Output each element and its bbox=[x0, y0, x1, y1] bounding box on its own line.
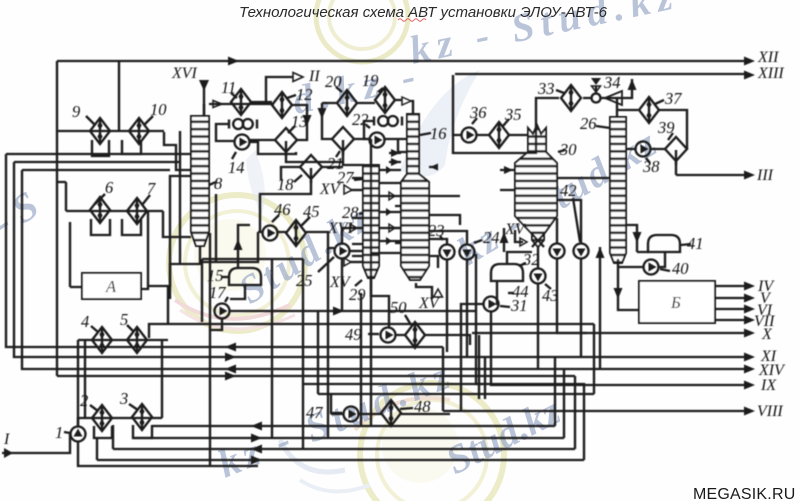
wire left loop 9 to 6 bbox=[57, 182, 66, 211]
wire col26 bottom bbox=[618, 259, 639, 310]
node XI arrow bbox=[744, 353, 755, 362]
wire ac14 to pump14 bbox=[216, 124, 234, 141]
svg-text:27: 27 bbox=[337, 168, 354, 187]
wire pump49 row bbox=[396, 335, 470, 345]
wire pump43 drop bbox=[538, 247, 600, 369]
column 27 28 stripper bbox=[363, 165, 379, 278]
label 29 bbox=[349, 280, 366, 304]
heat exchanger 10 bbox=[129, 100, 167, 144]
label column 28 bbox=[342, 203, 363, 222]
wire maze v443 viii riser bbox=[442, 347, 444, 411]
svg-text:20: 20 bbox=[325, 72, 342, 91]
wire xiii left riser bbox=[453, 75, 461, 135]
svg-text:VIII: VIII bbox=[757, 403, 783, 420]
heat exchanger 7 bbox=[127, 179, 156, 224]
wire d13 bottom out bbox=[286, 151, 364, 165]
svg-text:39: 39 bbox=[657, 118, 675, 137]
heat exchanger 48 bbox=[381, 397, 431, 426]
wire mid verticals bbox=[303, 139, 594, 449]
svg-text:42: 42 bbox=[560, 181, 577, 200]
heat exchanger 45 bbox=[286, 202, 320, 246]
heat exchanger 9 bbox=[72, 102, 110, 144]
label column 27 bbox=[337, 168, 363, 187]
column 16 bbox=[401, 114, 429, 280]
svg-text:50: 50 bbox=[390, 298, 407, 317]
svg-text:Б: Б bbox=[670, 293, 681, 312]
wire pump42a drop bbox=[557, 259, 587, 333]
svg-text:9: 9 bbox=[72, 102, 80, 121]
heat exchanger 5 bbox=[120, 310, 147, 353]
node I inlet bbox=[2, 434, 70, 453]
pump 1 bbox=[55, 423, 86, 442]
wire xv col27 lower inject bbox=[350, 261, 363, 263]
wire col8 top feed xvi bbox=[203, 104, 205, 116]
node VI arrow bbox=[715, 308, 744, 310]
diamond 21 bbox=[327, 127, 354, 173]
node XII line bbox=[57, 60, 744, 62]
pump 43 bbox=[531, 269, 559, 306]
pump 23 bbox=[428, 221, 455, 260]
svg-text:XII: XII bbox=[757, 49, 779, 66]
node VIII line bbox=[443, 410, 744, 412]
svg-text:5: 5 bbox=[120, 310, 128, 329]
wire hx5 right drop to hx2 row bbox=[161, 340, 163, 418]
label XV near 29 bbox=[329, 258, 352, 291]
svg-text:44: 44 bbox=[512, 282, 529, 301]
svg-text:37: 37 bbox=[664, 89, 682, 108]
wire col30 bottom to pump43 bbox=[537, 247, 539, 268]
wire pump14 left inlet bbox=[250, 142, 296, 154]
svg-text:13: 13 bbox=[291, 112, 308, 131]
pump 22 bbox=[352, 110, 385, 148]
pale blue bird swoosh bbox=[400, 70, 480, 176]
svg-text:11: 11 bbox=[221, 78, 236, 97]
wire stub u under hx7 bbox=[122, 219, 141, 235]
pump 36 bbox=[462, 103, 488, 143]
wire pump17 down out bbox=[210, 233, 222, 466]
pump 40 bbox=[644, 259, 690, 278]
wire col27 left stubs bbox=[352, 178, 363, 256]
node II outlet bbox=[266, 77, 293, 102]
svg-text:XV: XV bbox=[504, 221, 527, 238]
wire maze x row left bbox=[472, 332, 587, 334]
wire pump24 drop bbox=[466, 260, 468, 358]
svg-text:2: 2 bbox=[80, 391, 88, 410]
wire E row4 bbox=[57, 375, 575, 377]
electric desalter A bbox=[82, 273, 141, 299]
heat exchanger 20 bbox=[325, 72, 357, 116]
wire pump40 to dome41 bbox=[659, 252, 665, 267]
wire maze row388 bbox=[476, 254, 584, 460]
label column 30 bbox=[558, 140, 577, 159]
wire hx45 pump46 row bbox=[258, 232, 334, 248]
wire d13 to pump14 row bbox=[250, 139, 275, 141]
node X line bbox=[587, 332, 744, 334]
wire pump42b drop bbox=[580, 259, 582, 357]
wire d18 row bbox=[281, 167, 343, 180]
wire E arrows bbox=[225, 343, 236, 352]
node XIII line bbox=[455, 73, 744, 75]
svg-text:6: 6 bbox=[105, 178, 114, 197]
pump 46 bbox=[263, 200, 292, 241]
wire pump25 out bbox=[350, 250, 363, 252]
wire hx9 hx10 row bbox=[57, 130, 164, 132]
svg-text:26: 26 bbox=[580, 114, 597, 133]
svg-text:38: 38 bbox=[642, 157, 660, 176]
heat exchanger 37 bbox=[639, 89, 682, 123]
svg-text:48: 48 bbox=[414, 397, 431, 416]
wire xvi inject col27 bbox=[356, 227, 363, 229]
svg-text:XIII: XIII bbox=[757, 65, 784, 82]
wire pump24 feed bbox=[429, 231, 467, 245]
wire hx37 loop right bbox=[659, 110, 687, 149]
wire hx4 hx5 row bbox=[78, 339, 168, 341]
column 30 vacuum bbox=[515, 125, 557, 247]
wire E row2 bbox=[14, 162, 744, 357]
svg-text:19: 19 bbox=[362, 71, 379, 90]
wire ac22 to pump22 bbox=[364, 121, 374, 139]
wire right loop col8 row down bbox=[179, 131, 181, 264]
wire E row3 bbox=[22, 170, 744, 369]
diamond 18 bbox=[277, 155, 322, 194]
wire XII riser x119 bbox=[118, 61, 120, 131]
label column 8 bbox=[209, 174, 223, 193]
logo watermark center-left bbox=[169, 195, 305, 331]
label XV near 24 bbox=[504, 221, 527, 246]
wire pump31 drop bbox=[461, 304, 605, 411]
furnace 41 bbox=[648, 234, 704, 253]
wire pump47 row bbox=[331, 413, 450, 415]
wire b row4 bbox=[97, 459, 584, 461]
pump 47 bbox=[306, 403, 359, 422]
wire box A right to riser bbox=[141, 212, 148, 289]
heat exchanger 33 bbox=[537, 79, 581, 111]
heat exchanger 6 bbox=[90, 178, 114, 223]
wire maze row345 bbox=[554, 357, 556, 426]
pump 14 bbox=[228, 135, 250, 178]
wire maze row377 bbox=[574, 376, 576, 449]
wire d18 bottom drop bbox=[260, 180, 311, 233]
wire d21 to col16 bbox=[354, 138, 371, 140]
wire maze filler v485 bbox=[484, 356, 486, 399]
wire pump40 left bbox=[618, 266, 643, 268]
wire stub u under hx6 bbox=[91, 219, 110, 235]
svg-text:29: 29 bbox=[349, 285, 366, 304]
furnace 32 bbox=[491, 250, 540, 281]
svg-text:12: 12 bbox=[296, 85, 313, 104]
svg-text:35: 35 bbox=[504, 105, 522, 124]
svg-text:IX: IX bbox=[760, 377, 777, 394]
wire col16 bottom to pumps bbox=[416, 283, 432, 299]
wire maze filler v479 bbox=[478, 335, 480, 399]
wire pump23 drop bbox=[446, 260, 448, 352]
wire left frame vertical bbox=[56, 61, 58, 376]
wire furnace15 top arrow up bbox=[238, 225, 250, 268]
label XV near 18 bbox=[319, 181, 352, 198]
svg-text:23: 23 bbox=[428, 221, 445, 240]
svg-text:30: 30 bbox=[559, 140, 577, 159]
wire b arrows bbox=[251, 422, 262, 431]
wire rungs between col28 and col16 bbox=[371, 170, 401, 253]
wire dome41 to col26 bbox=[626, 225, 649, 252]
wire box around 36 bbox=[453, 129, 536, 153]
node IV arrow bbox=[715, 285, 744, 287]
heat exchanger 19 bbox=[362, 71, 395, 113]
label XV near 50 bbox=[418, 289, 443, 312]
wire xv inject col30 bbox=[515, 230, 523, 242]
wire riser 24 arrow bbox=[503, 228, 505, 252]
node XIV arrow bbox=[744, 365, 755, 374]
wire b row1 bbox=[152, 425, 555, 427]
pump 24 bbox=[460, 228, 500, 260]
svg-text:24: 24 bbox=[483, 228, 500, 247]
block B bbox=[639, 281, 715, 323]
svg-text:46: 46 bbox=[274, 200, 291, 219]
pump 49 bbox=[345, 325, 396, 344]
svg-text:X: X bbox=[761, 326, 773, 343]
node III line bbox=[676, 174, 744, 176]
svg-text:10: 10 bbox=[150, 100, 167, 119]
wire b row3 bbox=[113, 448, 575, 450]
pump 42a bbox=[550, 244, 565, 259]
wire xv inject 27 bbox=[350, 189, 363, 191]
svg-text:1: 1 bbox=[55, 423, 63, 442]
wire pump1 to hx2 row bbox=[78, 418, 258, 466]
heat exchanger 50 bbox=[390, 298, 425, 348]
svg-text:XVI: XVI bbox=[171, 65, 198, 82]
svg-text:25: 25 bbox=[296, 271, 313, 290]
wire box A left riser bbox=[70, 222, 82, 287]
diamond 39 bbox=[657, 118, 687, 165]
wire col30 left feeds bbox=[500, 170, 515, 190]
heat exchanger 2 bbox=[80, 391, 112, 431]
pump 38 bbox=[636, 142, 661, 177]
wire furnace32 to pump31 bbox=[497, 281, 499, 304]
column 8 bbox=[191, 116, 209, 246]
svg-text:16: 16 bbox=[430, 124, 447, 143]
svg-text:XV: XV bbox=[329, 274, 352, 291]
wire col26 top to hx37 bbox=[617, 98, 638, 117]
wire pump17 right line bbox=[230, 310, 476, 312]
node VII arrow bbox=[715, 319, 744, 321]
wire maze row366 bbox=[563, 369, 565, 438]
heat exchanger 11 bbox=[221, 78, 251, 115]
wire stub u between hx9 hx10 bbox=[122, 140, 141, 154]
wire box A right second bbox=[148, 176, 594, 338]
wire hx20 19 row bbox=[322, 100, 402, 103]
wire hx6 hx7 row bbox=[66, 211, 191, 237]
svg-text:18: 18 bbox=[277, 175, 294, 194]
wire col27 bottom drop bbox=[371, 278, 389, 327]
pump 42b bbox=[560, 181, 589, 259]
wire row y309 arrow bbox=[333, 307, 344, 316]
svg-text:36: 36 bbox=[469, 103, 487, 122]
heat exchanger 35 bbox=[489, 105, 522, 148]
svg-text:47: 47 bbox=[306, 403, 323, 422]
svg-text:14: 14 bbox=[228, 158, 245, 177]
wire pump25 top riser bbox=[342, 228, 356, 243]
node IX line bbox=[605, 384, 744, 386]
svg-text:22: 22 bbox=[352, 110, 369, 129]
air cooler of 22 bbox=[374, 116, 402, 126]
wire furnace15 to pump17 bbox=[230, 285, 245, 299]
svg-text:41: 41 bbox=[687, 234, 704, 253]
pump 17 bbox=[209, 283, 230, 319]
svg-text:XV: XV bbox=[319, 181, 342, 198]
svg-text:45: 45 bbox=[303, 202, 320, 221]
air cooler of 14 bbox=[229, 119, 257, 129]
svg-text:32: 32 bbox=[522, 250, 540, 269]
svg-text:17: 17 bbox=[209, 283, 226, 302]
svg-text:MEGASIK.RU: MEGASIK.RU bbox=[693, 486, 795, 501]
svg-text:43: 43 bbox=[542, 286, 559, 305]
label column 16 bbox=[420, 124, 447, 143]
wire maze row399 bbox=[593, 324, 595, 394]
wire col8 bottom drop bbox=[170, 246, 200, 299]
heat exchanger 4 bbox=[81, 312, 112, 353]
wire col16 right feeds bbox=[429, 167, 438, 268]
wire d39 bottom to III bbox=[675, 161, 677, 175]
wire furnace15 box bbox=[202, 259, 303, 438]
svg-text:4: 4 bbox=[81, 312, 89, 331]
svg-text:III: III bbox=[756, 167, 774, 184]
svg-text:I: I bbox=[3, 431, 10, 448]
svg-text:II: II bbox=[308, 68, 320, 85]
wire E left tails bbox=[6, 154, 191, 170]
wire furnace32 top bbox=[507, 252, 532, 264]
pump 25 bbox=[296, 244, 350, 291]
wire 46 left riser bbox=[202, 194, 258, 322]
svg-text:15: 15 bbox=[207, 266, 224, 285]
valve 34 bbox=[591, 73, 622, 105]
wire stub under hx3 bbox=[133, 425, 152, 438]
diamond 13 bbox=[275, 112, 308, 156]
svg-text:40: 40 bbox=[672, 259, 689, 278]
wire stub under hx2 bbox=[94, 425, 113, 460]
wire col8 to hx11 row bbox=[209, 102, 274, 104]
label column 26 bbox=[580, 114, 610, 133]
wire d39 to pump38 bbox=[626, 148, 665, 150]
wire vacuum line 33 34 bbox=[536, 79, 632, 129]
svg-text:7: 7 bbox=[147, 179, 156, 198]
column 26 bbox=[610, 117, 626, 263]
node XVI inlet top bbox=[203, 80, 205, 116]
heat exchanger 12 bbox=[272, 85, 313, 118]
wire b row2 bbox=[133, 437, 564, 439]
wire hx20 left drop to d21 bbox=[322, 103, 332, 139]
wire hx4 left drop bbox=[78, 340, 85, 426]
wire 19 to col16 top bbox=[411, 101, 413, 114]
logo watermark bottom-center bbox=[280, 383, 504, 501]
wire pump36 to hx35 bbox=[477, 134, 528, 136]
furnace 15 bbox=[207, 266, 261, 285]
label 44 bbox=[508, 282, 529, 301]
label XVI near 25 bbox=[327, 220, 357, 237]
svg-text:8: 8 bbox=[214, 174, 223, 193]
logo watermark top bbox=[316, 0, 408, 62]
wire pump22 out to col16 bbox=[385, 139, 406, 152]
svg-text:3: 3 bbox=[119, 389, 128, 408]
wire hx12 down to d13 bbox=[292, 105, 307, 140]
node V arrow bbox=[715, 297, 744, 299]
wire col30 right outs to 42 pumps bbox=[557, 178, 610, 243]
wire stub right hx10 bbox=[164, 132, 191, 170]
wire stub u under hx9 bbox=[92, 140, 109, 156]
svg-text:49: 49 bbox=[345, 325, 362, 344]
svg-text:А: А bbox=[105, 277, 117, 296]
wire E row1 bbox=[6, 154, 443, 347]
pump 31 bbox=[484, 296, 528, 315]
svg-text:33: 33 bbox=[537, 79, 555, 98]
svg-text:34: 34 bbox=[603, 73, 621, 92]
heat exchanger 3 bbox=[119, 389, 152, 430]
wire col16 right outs bbox=[429, 196, 460, 225]
wire col16 left feeds bbox=[389, 153, 401, 243]
